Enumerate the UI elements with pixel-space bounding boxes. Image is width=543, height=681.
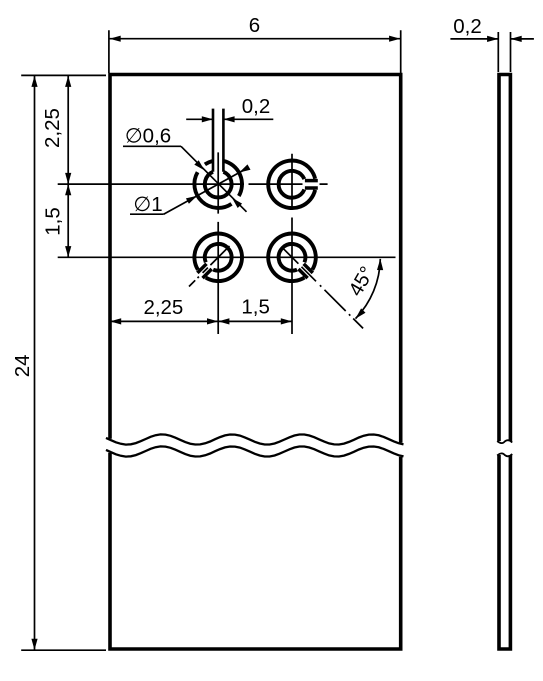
centerline column 1 (dash-dot) bbox=[217, 152, 219, 334]
centerline row 2 (dash-dot) bbox=[58, 256, 396, 258]
diameter 0,6 leader: diagonal line through hole H1 bbox=[181, 146, 247, 212]
dimension 2,25 bottom: dimension line bbox=[110, 320, 218, 322]
break line lower wave bbox=[106, 446, 404, 456]
dimension 2,25 left: dimension line bbox=[67, 76, 69, 184]
hole H2 outer circle bbox=[268, 161, 315, 209]
svg-text:∅1: ∅1 bbox=[133, 193, 162, 216]
dash-dot line through hole H4 at 45deg bbox=[281, 247, 363, 329]
svg-text:6: 6 bbox=[249, 14, 260, 37]
centerline row 1 (dash-dot) bbox=[58, 183, 328, 185]
hole H3 outer circle bbox=[194, 233, 242, 281]
dash-dot line through hole H3 at 45deg bbox=[189, 246, 230, 287]
plate lower outline bbox=[110, 453, 401, 649]
centerline column 2 (dash-dot) bbox=[291, 154, 293, 334]
dimension 0,2 side view: dimension line bbox=[450, 38, 534, 40]
hole H2 inner circle bbox=[279, 171, 305, 198]
diameter 0,6 leader: underline bbox=[123, 145, 181, 147]
side view lower part bbox=[497, 455, 512, 649]
hole H1 outer circle bbox=[194, 172, 231, 208]
svg-text:∅0,6: ∅0,6 bbox=[125, 125, 171, 148]
hole H2 slot walls bbox=[305, 186, 318, 190]
hole H1 slot walls / extension lines for 0,2 bbox=[213, 109, 223, 172]
svg-text:1,5: 1,5 bbox=[42, 207, 65, 236]
svg-text:0,2: 0,2 bbox=[242, 95, 271, 118]
hole H4 slot walls bbox=[299, 269, 308, 278]
side view upper part bbox=[497, 75, 512, 442]
dimension 0,2 slot: dimension line bbox=[186, 118, 273, 120]
hole H3 inner circle bbox=[205, 244, 232, 271]
hole H3 slot walls bbox=[197, 264, 206, 273]
diameter 1 leader: diagonal line through hole H1 bbox=[164, 168, 248, 214]
hole H4 outer circle bbox=[268, 233, 316, 281]
plate upper outline bbox=[110, 75, 401, 443]
svg-text:1,5: 1,5 bbox=[241, 296, 270, 319]
dimension 6: dimension line bbox=[110, 38, 401, 40]
hole H4 inner circle bbox=[279, 244, 306, 271]
dimension 24: dimension line bbox=[34, 76, 36, 650]
svg-text:0,2: 0,2 bbox=[453, 15, 482, 38]
hole H1 inner circle bbox=[205, 172, 232, 198]
break line upper wave bbox=[106, 434, 404, 444]
svg-text:24: 24 bbox=[11, 354, 34, 377]
svg-text:2,25: 2,25 bbox=[41, 108, 64, 148]
45deg angular dimension: arc bbox=[356, 259, 381, 319]
dimension 1,5 left: dimension line bbox=[67, 184, 69, 257]
diameter 1 leader: underline bbox=[130, 213, 164, 215]
dimension 0,2 side view: extension lines bbox=[498, 32, 510, 72]
dimension 1,5 bottom: dimension line bbox=[218, 320, 292, 322]
dimension 24: extension lines bbox=[21, 75, 106, 650]
svg-text:2,25: 2,25 bbox=[143, 296, 183, 319]
dimension 6: extension lines bbox=[109, 30, 401, 73]
